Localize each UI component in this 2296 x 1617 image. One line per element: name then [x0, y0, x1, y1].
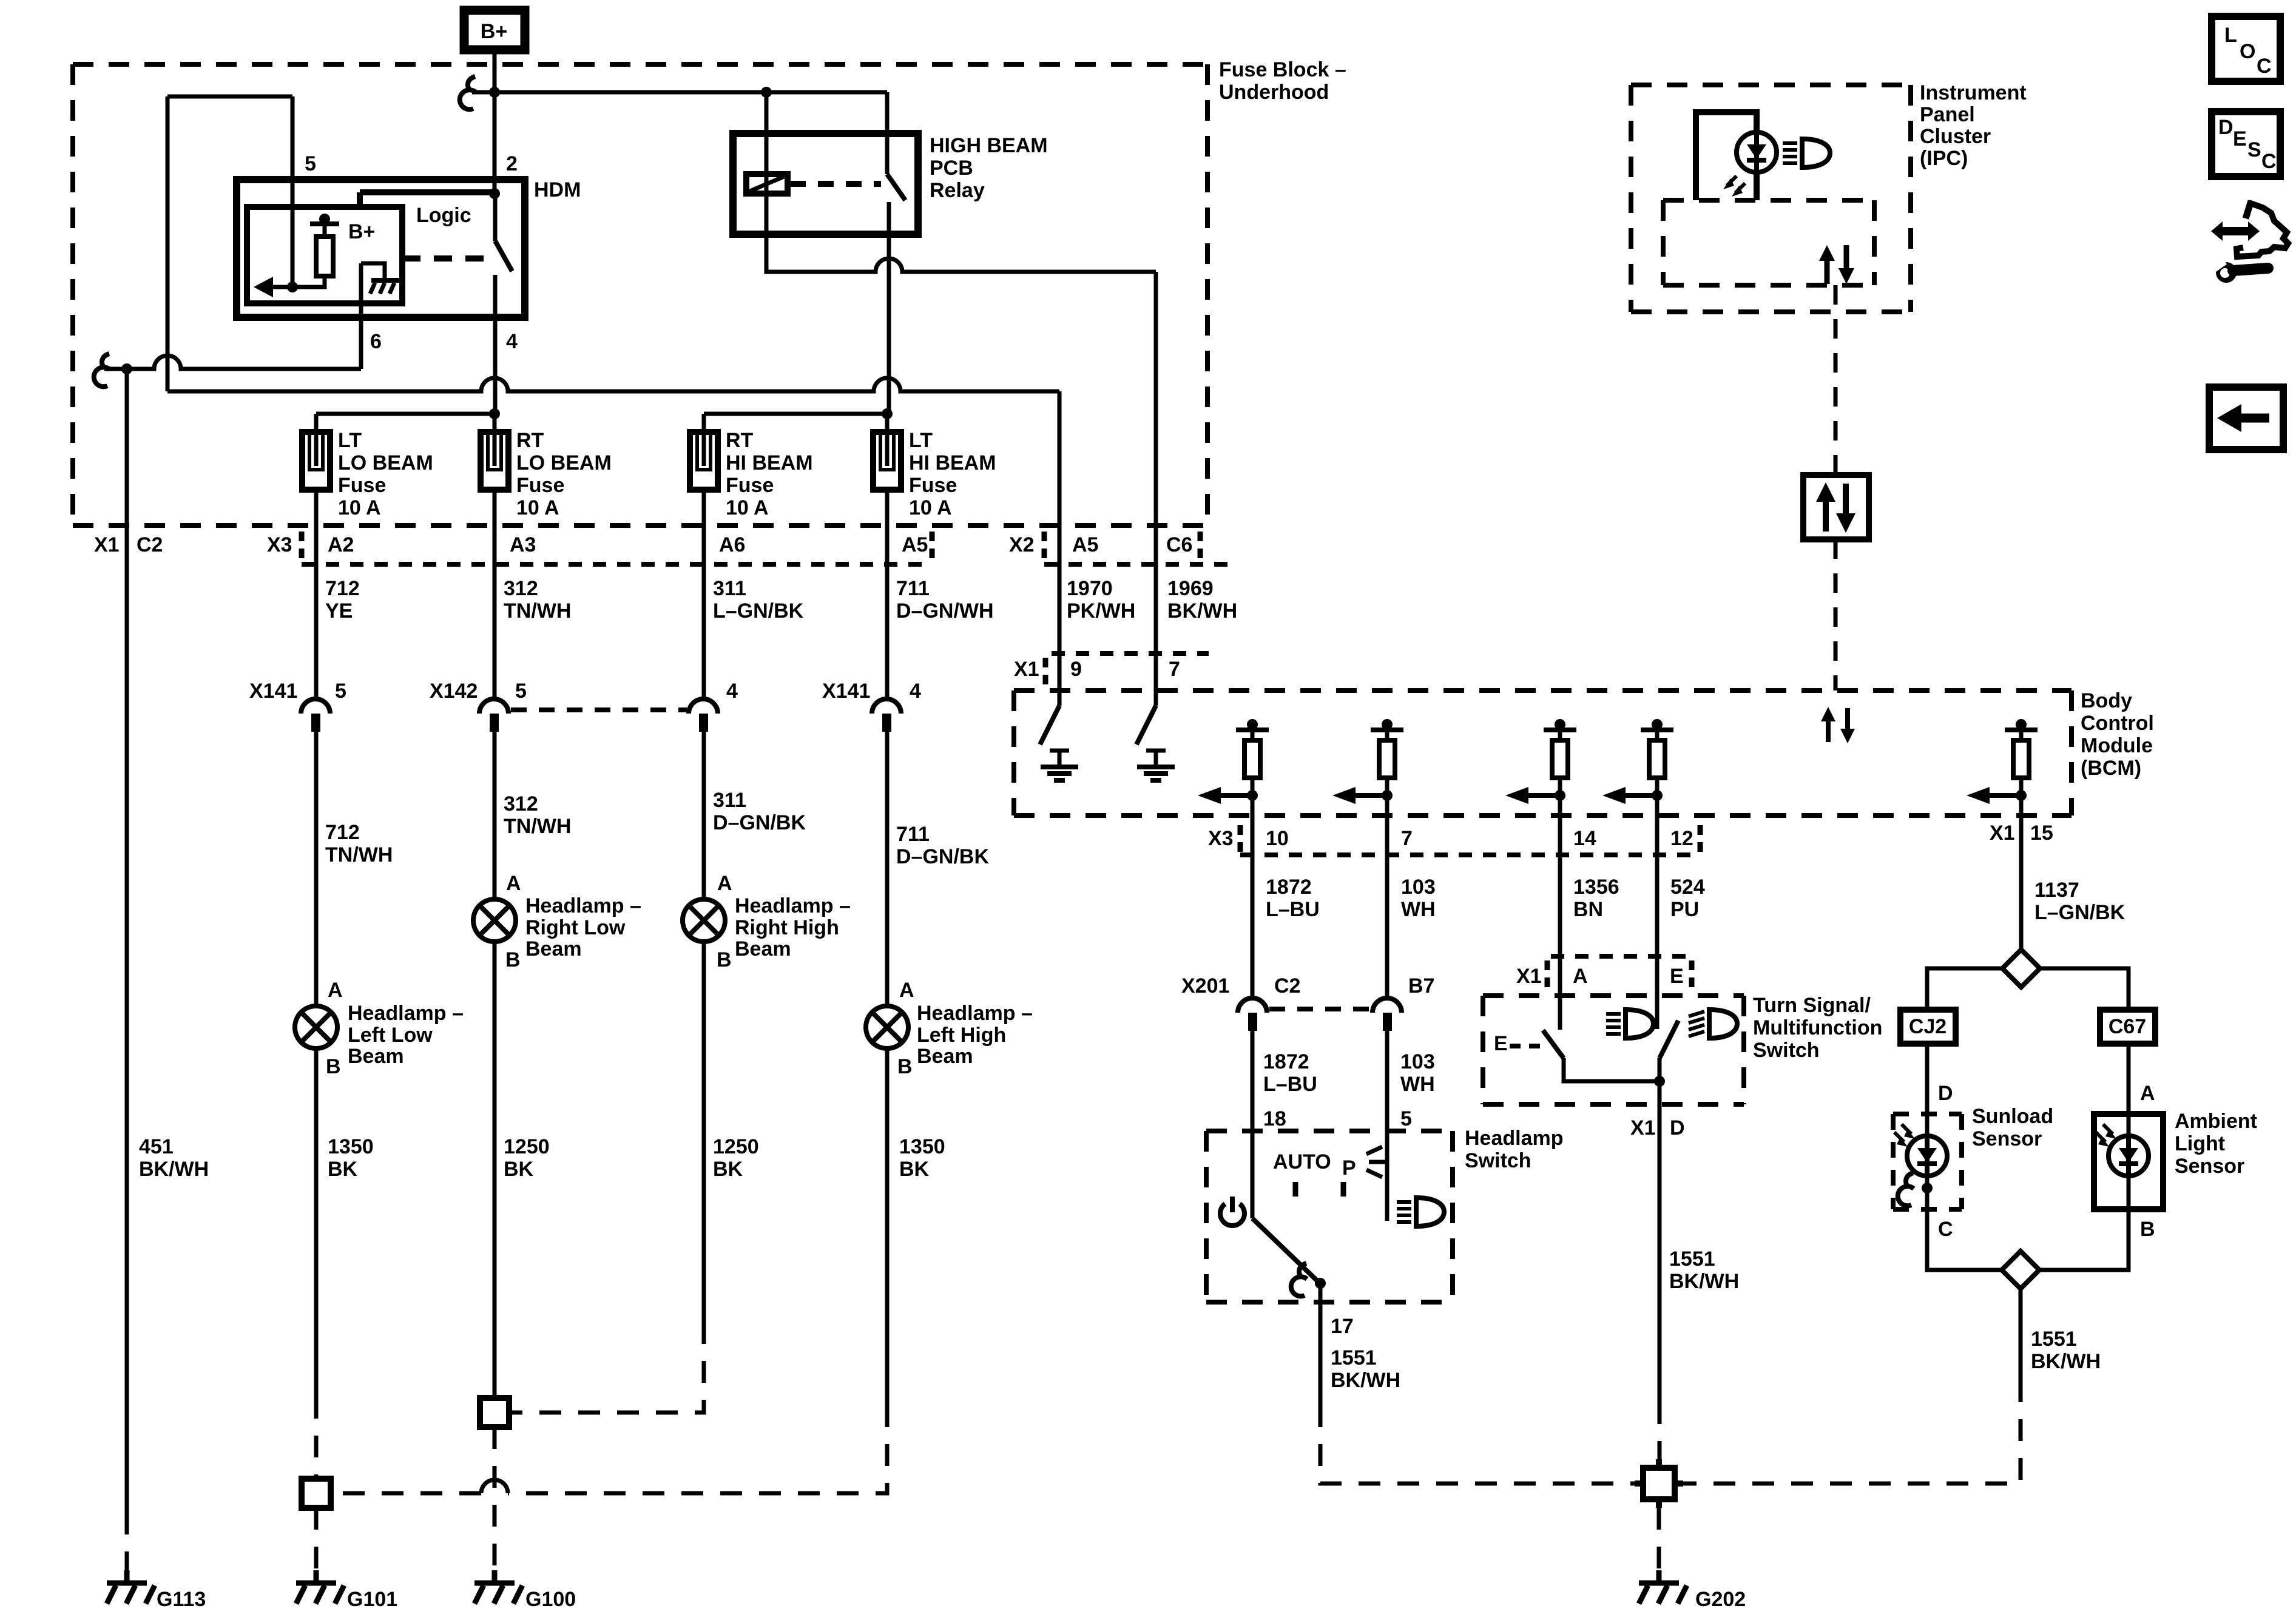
IPC indicator circuit wires	[1696, 112, 1757, 200]
svg-text:C2: C2	[137, 533, 163, 556]
svg-text:B+: B+	[481, 20, 507, 43]
svg-text:YE: YE	[325, 599, 353, 623]
svg-text:BN: BN	[1573, 898, 1603, 921]
svg-text:711: 711	[896, 577, 930, 600]
svg-text:X1: X1	[1516, 965, 1542, 988]
svg-text:Sensor: Sensor	[1972, 1127, 2042, 1150]
wire labels 1872/103/1356/524	[1266, 876, 1705, 921]
svg-text:1350: 1350	[899, 1135, 945, 1158]
ambient light sensor box	[2094, 1114, 2163, 1209]
svg-text:A: A	[2140, 1082, 2155, 1105]
svg-text:HI BEAM: HI BEAM	[909, 451, 996, 474]
node B+ junction	[489, 87, 500, 98]
node sunload output	[1922, 1183, 1933, 1193]
svg-text:4: 4	[910, 680, 921, 703]
svg-text:LO BEAM: LO BEAM	[338, 451, 433, 474]
headlamp Right Low Beam	[473, 872, 641, 1398]
svg-text:10: 10	[1266, 827, 1289, 850]
svg-text:10 A: 10 A	[909, 496, 952, 519]
svg-text:312: 312	[504, 792, 538, 815]
wire loop bottom to 1970	[167, 378, 1059, 653]
connector C67	[2100, 1010, 2155, 1044]
LOC navigation box	[2212, 16, 2280, 81]
svg-text:Relay: Relay	[930, 179, 985, 202]
relay coil	[746, 174, 788, 194]
power off symbol	[1220, 1197, 1244, 1226]
svg-text:1551: 1551	[1669, 1247, 1715, 1271]
wire CJ2 to sunload	[1925, 1044, 1930, 1114]
svg-text:B: B	[897, 1055, 913, 1078]
BCM dashed box	[1014, 690, 2071, 815]
svg-text:9: 9	[1070, 658, 1082, 681]
arrow output left	[254, 277, 292, 297]
svg-text:L–GN/BK: L–GN/BK	[713, 599, 804, 623]
svg-text:Panel: Panel	[1920, 103, 1975, 126]
svg-text:E: E	[1494, 1032, 1508, 1055]
fuse LT LO BEAM	[302, 429, 433, 519]
svg-text:17: 17	[1331, 1315, 1354, 1338]
svg-text:10 A: 10 A	[338, 496, 381, 519]
sunload photo sensor	[1894, 1114, 1947, 1176]
svg-text:1350: 1350	[328, 1135, 374, 1158]
svg-text:(BCM): (BCM)	[2081, 757, 2141, 780]
fuse block dashed border	[73, 64, 1207, 525]
svg-text:PU: PU	[1670, 898, 1699, 921]
IPC high beam icon	[1783, 139, 1830, 167]
svg-text:Headlamp –: Headlamp –	[525, 894, 641, 917]
serial data arrows in BCM	[1821, 707, 1855, 743]
svg-text:A2: A2	[328, 533, 354, 556]
gateway arrows	[1816, 482, 1855, 533]
svg-text:7: 7	[1401, 827, 1413, 850]
dashed splice line RT HI to G100 splice	[509, 1322, 704, 1413]
connector X142-5	[430, 680, 527, 899]
svg-text:C2: C2	[1274, 974, 1300, 998]
BCM driver output 5 (1137)	[1967, 719, 2038, 950]
node logic arrow junction	[287, 282, 298, 292]
ground G113	[107, 1570, 155, 1604]
connector CJ2	[1900, 1010, 1956, 1044]
svg-text:PK/WH: PK/WH	[1067, 599, 1135, 623]
splice box G101	[302, 1479, 331, 1508]
svg-text:Switch: Switch	[1753, 1039, 1820, 1062]
dashed splice to sensors 1551	[1675, 1398, 2021, 1484]
svg-text:D–GN/BK: D–GN/BK	[713, 811, 806, 834]
svg-text:C67: C67	[2109, 1015, 2146, 1038]
serial data arrows in IPC	[1819, 245, 1854, 284]
fuse RT HI BEAM	[690, 429, 813, 519]
headlamp on symbol	[1397, 1198, 1444, 1226]
svg-text:BK: BK	[713, 1158, 743, 1181]
node TS output junction	[1654, 1076, 1665, 1087]
svg-text:C: C	[2257, 55, 2272, 78]
svg-text:BK: BK	[328, 1158, 358, 1181]
connector separator dash X1	[1043, 658, 1048, 687]
svg-text:L–GN/BK: L–GN/BK	[2034, 901, 2125, 924]
svg-text:Beam: Beam	[525, 937, 582, 960]
high beam icon inside TS	[1689, 1010, 1737, 1038]
svg-text:712: 712	[325, 577, 360, 600]
connector row X1 9 7 top dash	[1052, 651, 1209, 656]
svg-text:AUTO: AUTO	[1273, 1150, 1331, 1173]
svg-text:711: 711	[896, 823, 930, 846]
svg-text:4: 4	[506, 330, 518, 353]
connector bottom dashed X3 row	[1240, 852, 1700, 857]
svg-text:C: C	[2261, 150, 2277, 173]
headlamp Right High Beam	[683, 872, 851, 1322]
connector X201-C2	[1181, 974, 1300, 1218]
svg-text:RT: RT	[516, 429, 544, 452]
BCM driver output 1 (1872)	[1198, 719, 1269, 815]
svg-text:(IPC): (IPC)	[1920, 147, 1968, 170]
dashed jumper X142 to RT HI connector	[511, 707, 687, 712]
dashed splice line LT HI to G101 splice	[508, 1405, 887, 1493]
sunload sensor dashed box	[1893, 1114, 1962, 1209]
splice diamond lower	[2002, 1251, 2039, 1289]
connector separator dashes X3 row	[1240, 825, 1700, 854]
svg-text:1551: 1551	[1331, 1346, 1377, 1369]
svg-text:WH: WH	[1400, 1073, 1435, 1096]
svg-text:103: 103	[1401, 876, 1436, 899]
svg-text:G101: G101	[347, 1588, 397, 1611]
dashed splice to ground G202	[1657, 1508, 1661, 1576]
HDM logic box	[247, 207, 402, 303]
svg-text:Beam: Beam	[348, 1045, 404, 1068]
HDM control dashed	[402, 255, 489, 262]
fuse RT LO BEAM	[481, 429, 612, 519]
svg-text:BK: BK	[504, 1158, 534, 1181]
svg-text:D–GN/WH: D–GN/WH	[896, 599, 994, 623]
wire to G101	[314, 1508, 319, 1576]
svg-text:Fuse: Fuse	[909, 474, 957, 497]
svg-text:Beam: Beam	[917, 1045, 973, 1068]
svg-text:A: A	[717, 872, 732, 895]
svg-text:Switch: Switch	[1465, 1149, 1531, 1172]
wire ambient B leg	[2039, 1176, 2129, 1270]
svg-text:X1: X1	[1990, 822, 2015, 845]
svg-text:451: 451	[139, 1135, 174, 1158]
svg-text:B7: B7	[1408, 974, 1434, 998]
svg-text:Fuse: Fuse	[516, 474, 564, 497]
svg-text:15: 15	[2030, 822, 2053, 845]
svg-text:Fuse: Fuse	[726, 474, 774, 497]
wire HDM pin6	[104, 263, 361, 369]
wire low beam fuse bus	[316, 414, 495, 432]
TS switch blade A	[1543, 1030, 1660, 1081]
svg-text:A6: A6	[719, 533, 745, 556]
svg-text:1970: 1970	[1067, 577, 1113, 600]
svg-text:Right Low: Right Low	[525, 916, 626, 939]
wire labels mid	[325, 789, 989, 868]
wire diamond to 1551	[2019, 1289, 2023, 1398]
wire 451 upper	[125, 369, 129, 1513]
wire hook at B+ junction	[460, 76, 476, 109]
B+ stub inside logic	[310, 214, 375, 243]
connector 4 (RT HI)	[689, 680, 738, 899]
turn signal dashed box	[1483, 996, 1744, 1104]
BCM driver output 4 (524)	[1602, 719, 1673, 815]
resistor inside logic	[316, 237, 333, 276]
diagnostic car icon	[2210, 201, 2288, 283]
svg-text:5: 5	[515, 680, 527, 703]
node high beam bus junction	[882, 408, 893, 419]
svg-text:X201: X201	[1181, 974, 1229, 998]
splice box G100	[480, 1398, 509, 1427]
svg-text:1250: 1250	[504, 1135, 550, 1158]
BCM driver output 3 (1356)	[1505, 719, 1576, 815]
dashed 1551 to G202 splice	[1320, 1405, 1643, 1484]
svg-text:L–BU: L–BU	[1266, 898, 1320, 921]
svg-text:CJ2: CJ2	[1909, 1015, 1947, 1038]
svg-text:Turn Signal/: Turn Signal/	[1753, 994, 1871, 1017]
svg-text:Underhood: Underhood	[1219, 81, 1329, 104]
svg-text:Sensor: Sensor	[2175, 1155, 2244, 1178]
wires fuse outputs through connector row	[316, 490, 887, 699]
svg-text:BK/WH: BK/WH	[1167, 599, 1237, 623]
svg-text:311: 311	[713, 577, 746, 600]
relay coil feed wire	[765, 92, 769, 194]
svg-text:E: E	[1670, 965, 1684, 988]
connector row X1 A E	[1551, 954, 1692, 959]
back arrow box	[2209, 387, 2283, 450]
svg-text:D: D	[2218, 116, 2234, 139]
svg-text:PCB: PCB	[930, 157, 973, 180]
HDM switch	[495, 194, 512, 414]
svg-text:524: 524	[1670, 876, 1705, 899]
wires from diamond to connectors	[1927, 968, 2129, 1010]
svg-text:BK/WH: BK/WH	[1669, 1270, 1739, 1293]
parking lamp symbol P	[1342, 1147, 1387, 1197]
B+ terminal	[464, 10, 525, 50]
svg-text:10 A: 10 A	[516, 496, 559, 519]
svg-text:X141: X141	[249, 680, 297, 703]
wire 451 dashed to G113	[125, 1513, 129, 1576]
svg-text:B: B	[2140, 1218, 2155, 1241]
wire 17 output	[1319, 1283, 1323, 1405]
svg-text:HIGH BEAM: HIGH BEAM	[930, 134, 1048, 157]
relay box	[733, 133, 918, 234]
wire 1350 dashed to splice	[314, 1397, 319, 1479]
svg-text:Light: Light	[2175, 1132, 2225, 1155]
wire HDM pin5 loop	[167, 96, 292, 391]
svg-text:Multifunction: Multifunction	[1753, 1016, 1882, 1039]
IPC dashed box	[1631, 85, 1911, 312]
fuse LT HI BEAM	[873, 429, 996, 519]
svg-text:HI BEAM: HI BEAM	[726, 451, 813, 474]
svg-text:A: A	[1573, 965, 1588, 988]
svg-text:B: B	[505, 948, 521, 971]
svg-text:1551: 1551	[2031, 1328, 2077, 1351]
svg-text:X1: X1	[1630, 1116, 1656, 1139]
svg-text:1872: 1872	[1266, 876, 1312, 899]
svg-text:Body: Body	[2081, 689, 2132, 712]
wire hook pin6 left	[94, 354, 110, 387]
serial data dashed link upper	[1834, 285, 1838, 475]
wire B+ feed	[472, 54, 887, 194]
svg-text:L: L	[2224, 24, 2237, 47]
node pin6 junction	[121, 363, 132, 374]
svg-text:Fuse: Fuse	[338, 474, 386, 497]
svg-text:311: 311	[713, 789, 746, 812]
headlamp switch wiper	[1252, 1218, 1317, 1280]
svg-text:A: A	[328, 979, 343, 1002]
splice S square G202	[1635, 1459, 1683, 1508]
svg-text:LT: LT	[338, 429, 362, 452]
svg-text:B: B	[717, 948, 732, 971]
svg-text:BK/WH: BK/WH	[2031, 1350, 2101, 1373]
ground G202	[1639, 1570, 1687, 1604]
svg-text:A5: A5	[1072, 533, 1098, 556]
IPC inner dashed box	[1663, 200, 1874, 285]
svg-text:1969: 1969	[1167, 577, 1214, 600]
node low beam bus junction	[489, 408, 500, 419]
splice diamond upper	[2002, 950, 2040, 987]
svg-text:Left Low: Left Low	[348, 1024, 433, 1047]
svg-text:Headlamp: Headlamp	[1465, 1127, 1564, 1150]
svg-text:5: 5	[335, 680, 346, 703]
wire resistor to arrow	[292, 276, 325, 287]
headlamp Left Low Beam	[295, 979, 464, 1397]
wire TS D output	[1658, 1081, 1662, 1402]
svg-text:X1: X1	[1014, 658, 1039, 681]
svg-text:Left High: Left High	[917, 1024, 1006, 1047]
svg-text:B+: B+	[348, 220, 375, 243]
wire C67 to ambient	[2127, 1044, 2131, 1114]
TS switch blade E	[1660, 1021, 1678, 1081]
svg-text:312: 312	[504, 577, 538, 600]
svg-text:L–BU: L–BU	[1263, 1073, 1317, 1096]
svg-text:A: A	[506, 872, 521, 895]
bottom wire labels	[139, 1135, 945, 1181]
svg-text:1872: 1872	[1263, 1050, 1309, 1073]
connector X141-5	[249, 680, 346, 1006]
BCM driver output 2 (103)	[1332, 719, 1403, 815]
svg-text:TN/WH: TN/WH	[504, 599, 571, 623]
svg-text:X3: X3	[1208, 827, 1234, 850]
svg-text:Fuse Block –: Fuse Block –	[1219, 58, 1346, 81]
serial data dashed link lower	[1834, 539, 1838, 690]
wires below X3	[1252, 815, 1657, 1030]
wire sunload C leg	[1927, 1176, 2002, 1270]
svg-text:X3: X3	[267, 533, 292, 556]
svg-text:12: 12	[1670, 827, 1693, 850]
dashed jumper X201 to B7	[1269, 1007, 1370, 1011]
svg-text:14: 14	[1573, 827, 1596, 850]
svg-text:Headlamp –: Headlamp –	[735, 894, 851, 917]
headlamp Left High Beam	[866, 979, 1033, 1405]
BCM ground switch 9	[1040, 653, 1078, 780]
svg-text:6: 6	[370, 330, 382, 353]
HDM module box	[237, 180, 525, 317]
svg-text:A3: A3	[510, 533, 536, 556]
connector separator dashes	[302, 532, 1200, 561]
svg-text:2: 2	[506, 152, 518, 175]
svg-text:B: B	[326, 1055, 341, 1078]
svg-text:Ambient: Ambient	[2175, 1110, 2257, 1133]
hook at sunload output	[1898, 1173, 1914, 1206]
ground G100	[474, 1570, 522, 1604]
connector bottom dashed rows	[302, 562, 1238, 567]
svg-text:Logic: Logic	[416, 204, 471, 227]
svg-text:BK/WH: BK/WH	[1331, 1369, 1400, 1392]
svg-text:1137: 1137	[2034, 879, 2079, 902]
svg-text:E: E	[2233, 127, 2247, 150]
svg-text:10 A: 10 A	[726, 496, 769, 519]
svg-text:LT: LT	[909, 429, 933, 452]
svg-text:C6: C6	[1166, 533, 1192, 556]
relay switch	[887, 92, 905, 414]
svg-text:G113: G113	[157, 1588, 206, 1611]
svg-text:712: 712	[325, 821, 360, 844]
ground G101	[296, 1570, 344, 1604]
svg-text:Headlamp –: Headlamp –	[348, 1002, 464, 1025]
low beam icon inside TS	[1606, 1010, 1653, 1038]
svg-text:S: S	[2247, 138, 2261, 161]
svg-text:WH: WH	[1401, 898, 1436, 921]
svg-text:O: O	[2240, 40, 2255, 63]
serial data gateway box	[1803, 475, 1869, 539]
svg-text:1250: 1250	[713, 1135, 759, 1158]
svg-text:Module: Module	[2081, 734, 2153, 757]
svg-text:A: A	[899, 979, 914, 1002]
fuse block label	[1219, 58, 1346, 104]
svg-text:C: C	[1938, 1218, 1953, 1241]
BCM ground switch 7	[1136, 653, 1175, 780]
ambient photo sensor	[2096, 1114, 2149, 1176]
hook at switch output	[1291, 1263, 1307, 1296]
svg-text:D: D	[1938, 1082, 1953, 1105]
headlamp switch dashed box	[1206, 1131, 1453, 1302]
wire high beam fuse bus	[704, 414, 889, 432]
svg-text:Sunload: Sunload	[1972, 1105, 2053, 1128]
svg-text:P: P	[1342, 1156, 1356, 1180]
svg-text:Control: Control	[2081, 712, 2154, 735]
DESC navigation box	[2212, 112, 2280, 177]
svg-text:X141: X141	[822, 680, 870, 703]
svg-text:X2: X2	[1009, 533, 1035, 556]
svg-text:7: 7	[1169, 658, 1180, 681]
dashed to G202 splice	[1658, 1402, 1662, 1468]
svg-text:HDM: HDM	[534, 178, 581, 201]
wire relay coil return to C6	[766, 194, 1156, 653]
node HDM pin2 junction	[489, 188, 500, 199]
svg-text:D: D	[1670, 1116, 1685, 1139]
IPC high beam indicator LED	[1723, 132, 1777, 197]
svg-text:4: 4	[726, 680, 738, 703]
svg-text:5: 5	[305, 152, 316, 175]
svg-text:X142: X142	[430, 680, 478, 703]
svg-text:G202: G202	[1695, 1588, 1746, 1611]
svg-text:103: 103	[1400, 1050, 1435, 1073]
svg-text:Headlamp –: Headlamp –	[917, 1002, 1033, 1025]
svg-text:RT: RT	[726, 429, 754, 452]
relay control dashed	[790, 181, 881, 187]
svg-text:1356: 1356	[1573, 876, 1619, 899]
node relay feed junction	[761, 87, 772, 98]
connector X141-4 (LT HI)	[822, 680, 921, 1006]
svg-text:LO BEAM: LO BEAM	[516, 451, 612, 474]
wire labels 1872/103 lower	[1263, 1050, 1435, 1130]
svg-text:TN/WH: TN/WH	[504, 815, 571, 838]
svg-text:5: 5	[1400, 1107, 1412, 1130]
ground inside logic	[361, 263, 399, 294]
svg-text:D–GN/BK: D–GN/BK	[896, 845, 989, 868]
svg-text:X1: X1	[94, 533, 120, 556]
svg-text:BK: BK	[899, 1158, 930, 1181]
connector B7	[1373, 974, 1434, 1221]
svg-text:G100: G100	[525, 1588, 576, 1611]
wire labels under connector row	[325, 577, 1237, 623]
